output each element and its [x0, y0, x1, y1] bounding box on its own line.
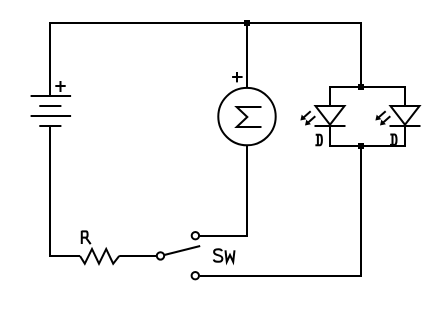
- meter sigma symbol: [237, 107, 262, 127]
- LED D (left): [300, 106, 345, 126]
- LED D right cathode bar: [390, 125, 421, 127]
- LED D left arrow 1 head: [300, 115, 306, 121]
- meter plus sign: [232, 72, 243, 82]
- LED D right arrow 1 head: [375, 115, 381, 121]
- label R: [82, 231, 91, 244]
- LED D left arrow 2 head: [305, 120, 311, 126]
- wire LED bottom rail with cathode drops: [330, 126, 405, 146]
- switch SW bottom throw terminal: [192, 272, 199, 279]
- wire top throw to meter bottom: [200, 146, 247, 237]
- wire bottom throw to LED bridge bottom: [200, 146, 361, 276]
- label D right: [390, 135, 397, 145]
- label D left: [315, 135, 322, 145]
- resistor R: [80, 249, 119, 264]
- LED D left arrow 2 shaft: [307, 116, 316, 124]
- wire resistor to switch pole: [119, 255, 156, 257]
- LED D right arrow 1 shaft: [377, 111, 386, 119]
- LED D left cathode bar: [315, 125, 346, 127]
- wire top rail: battery + up, across top, down right side to LED bridge: [50, 23, 361, 96]
- battery B1: [31, 81, 72, 126]
- battery long plate 2: [31, 115, 72, 117]
- wire battery minus down and right to resistor: [50, 126, 80, 256]
- switch SW top throw terminal: [192, 232, 199, 239]
- wire LED top rail with anode drops: [330, 87, 405, 106]
- battery short plate 2: [39, 125, 61, 127]
- switch SW blade: [165, 246, 200, 255]
- LED D right arrow 2 head: [380, 120, 386, 126]
- battery long plate 1: [31, 95, 72, 97]
- LED D left arrow 1 shaft: [302, 111, 311, 119]
- LED D right arrow 2 shaft: [382, 116, 391, 124]
- node junction LED bottom rail: [358, 143, 364, 149]
- LED D (right): [375, 106, 420, 126]
- meter U1 circle: [218, 88, 275, 145]
- label SW: [214, 249, 235, 262]
- battery short plate 1: [39, 105, 61, 107]
- LED D left triangle: [316, 106, 345, 125]
- wire meter top feed: [246, 23, 248, 88]
- node junction on top rail: [244, 20, 250, 26]
- switch SW pole terminal: [157, 252, 164, 259]
- battery plus sign: [55, 81, 65, 92]
- LED D right triangle: [391, 106, 420, 125]
- node junction LED top rail: [358, 84, 364, 90]
